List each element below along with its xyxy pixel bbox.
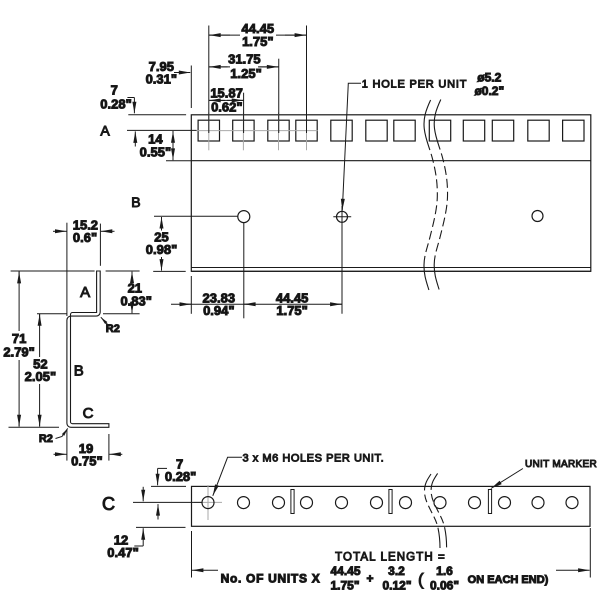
svg-text:A: A xyxy=(100,123,110,139)
unit markers (slots) xyxy=(291,490,492,514)
svg-text:31.75: 31.75 xyxy=(228,51,261,66)
extension line top edge (left) xyxy=(128,114,186,116)
svg-text:TOTAL LENGTH =: TOTAL LENGTH = xyxy=(335,552,446,564)
dimension 44.45 / 1.75in (bottom of top view) xyxy=(276,290,342,318)
svg-text:7: 7 xyxy=(111,83,118,98)
svg-text:C: C xyxy=(102,494,115,514)
leader: UNIT MARKER xyxy=(491,459,597,488)
svg-text:1.25": 1.25" xyxy=(230,66,261,81)
svg-text:0.47": 0.47" xyxy=(107,545,138,560)
round hole 1 (top view) xyxy=(238,211,250,319)
svg-text:No. OF UNITS X: No. OF UNITS X xyxy=(221,571,321,585)
dimension 52 / 2.05in xyxy=(25,314,67,427)
top view: gray centerlines of first four squares xyxy=(196,113,318,151)
svg-text:44.45: 44.45 xyxy=(330,564,360,578)
svg-text:0.31": 0.31" xyxy=(146,71,177,86)
svg-text:UNIT MARKER: UNIT MARKER xyxy=(525,459,597,470)
svg-text:15.87: 15.87 xyxy=(210,85,243,100)
dimension 23.83 / 0.94in xyxy=(171,290,342,318)
dimension 44.45 / 1.75in (top) xyxy=(209,21,307,49)
leader line row A centerline xyxy=(127,129,197,131)
svg-text:0.55": 0.55" xyxy=(140,144,171,159)
dimension 15.2 / 0.6in xyxy=(53,218,115,317)
svg-text:0.94": 0.94" xyxy=(203,303,234,318)
svg-text:ON EACH END): ON EACH END) xyxy=(468,574,549,586)
svg-text:(: ( xyxy=(418,570,424,589)
leader R2 (bottom bend) xyxy=(39,428,68,445)
extension line square2 center xyxy=(243,93,245,133)
bottom view top edge extension xyxy=(151,485,186,487)
svg-text:1.75": 1.75" xyxy=(330,578,359,592)
leader R2 (top bend) xyxy=(101,317,120,335)
svg-text:ø5.2: ø5.2 xyxy=(477,70,501,84)
section bottom extension line xyxy=(9,426,60,428)
leader line row C xyxy=(133,501,202,503)
round hole 2 with center cross (top view) xyxy=(333,206,351,314)
svg-text:0.6": 0.6" xyxy=(73,230,97,245)
svg-text:R2: R2 xyxy=(106,323,120,335)
break (wavy) lines in top view xyxy=(424,100,448,291)
svg-text:R2: R2 xyxy=(39,433,53,445)
svg-text:0.28": 0.28" xyxy=(100,97,131,112)
svg-text:1.6: 1.6 xyxy=(436,564,453,578)
top view: rail front face outline xyxy=(191,115,591,271)
dimension 21 / 0.83in xyxy=(103,272,152,314)
dimension 14 / 0.55in xyxy=(140,131,192,161)
svg-text:1.75": 1.75" xyxy=(242,34,273,49)
dimension 7 / 0.28in (bottom view) xyxy=(158,456,197,519)
svg-text:0.75": 0.75" xyxy=(71,454,102,469)
total length dimension xyxy=(192,528,591,592)
extension line square1 center xyxy=(208,26,210,134)
dimension 19 / 0.75in xyxy=(54,430,123,469)
svg-text:A: A xyxy=(80,284,90,301)
dimension 12 / 0.47in xyxy=(107,487,143,560)
extension line rail left end (up) xyxy=(190,66,192,109)
round hole 3 (top view) xyxy=(532,211,543,222)
svg-text:1 HOLE PER UNIT: 1 HOLE PER UNIT xyxy=(362,79,468,91)
label A (top view row of squares) xyxy=(100,123,110,139)
section top extension line xyxy=(11,270,95,272)
svg-text:0.06": 0.06" xyxy=(430,578,459,592)
leader: 1 HOLE PER UNIT xyxy=(342,70,504,210)
svg-text:0.62": 0.62" xyxy=(211,100,242,115)
svg-text:2.05": 2.05" xyxy=(25,369,56,384)
bottom view bottom edge extension xyxy=(136,526,186,528)
svg-text:ø0.2": ø0.2" xyxy=(474,84,504,98)
svg-text:0.83": 0.83" xyxy=(120,294,151,309)
label B (top view web) xyxy=(131,194,140,210)
svg-text:0.12": 0.12" xyxy=(382,578,411,592)
dimension 15.87 / 0.62in xyxy=(209,85,244,114)
svg-text:0.28": 0.28" xyxy=(165,469,196,484)
section profile (Z-shaped cross section) xyxy=(67,271,109,427)
extension line square3 center xyxy=(278,59,280,133)
leader: 3 x M6 HOLES PER UNIT xyxy=(213,452,384,496)
dimension 25 / 0.98in xyxy=(146,216,244,271)
extension line rail left end (down) xyxy=(190,276,192,314)
dimension 7.95 / 0.31in xyxy=(146,59,191,87)
svg-text:B: B xyxy=(131,194,140,210)
dimension 71 / 2.79in xyxy=(3,272,34,427)
svg-text:0.98": 0.98" xyxy=(146,242,177,257)
dimension 7 / 0.28in (top left) xyxy=(100,83,135,147)
svg-text:3.2: 3.2 xyxy=(388,564,405,578)
svg-text:+: + xyxy=(366,571,373,585)
break (wavy) lines in bottom view xyxy=(425,473,447,548)
svg-text:1.75": 1.75" xyxy=(276,303,307,318)
extension line square4 center xyxy=(306,26,308,134)
bottom view: gray centerlines of hole 1 xyxy=(194,485,222,520)
bottom view: flange outline xyxy=(192,486,591,526)
svg-text:B: B xyxy=(74,363,84,380)
top view: square mounting holes xyxy=(198,120,584,141)
bottom view: M6 holes xyxy=(202,497,578,509)
svg-text:C: C xyxy=(83,405,94,422)
dimension 31.75 / 1.25in xyxy=(209,51,279,81)
svg-text:3 x M6 HOLES PER UNIT.: 3 x M6 HOLES PER UNIT. xyxy=(243,452,385,464)
